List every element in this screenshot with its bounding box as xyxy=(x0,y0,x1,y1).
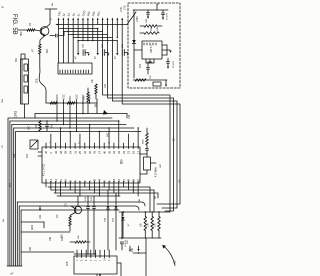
label 272 xyxy=(139,63,142,68)
svg-text:13B: 13B xyxy=(157,27,159,31)
wire drop cl3 xyxy=(117,25,118,39)
wire long bus 3 xyxy=(21,209,119,211)
resistor R14 xyxy=(66,202,72,231)
label 34C c xyxy=(61,236,64,241)
capacitor C4 47 xyxy=(114,40,129,59)
svg-text:36C: 36C xyxy=(16,57,18,62)
svg-text:43: 43 xyxy=(54,150,58,154)
capacitor C9 xyxy=(167,58,170,69)
IC1 top pins xyxy=(46,120,139,147)
ground tap xyxy=(39,206,41,211)
resistor R15 xyxy=(70,235,90,244)
svg-text:34: 34 xyxy=(112,150,116,154)
wire u2 pins xyxy=(162,45,170,55)
label pin marks xyxy=(50,141,111,144)
svg-text:10: 10 xyxy=(64,178,68,182)
svg-text:22C: 22C xyxy=(75,94,79,99)
label 200 xyxy=(30,224,34,230)
wire drop cl1 xyxy=(77,40,78,42)
label 24C b xyxy=(26,153,29,158)
label 36C d xyxy=(62,233,64,238)
svg-text:25B: 25B xyxy=(102,44,104,48)
wire cap stub xyxy=(50,35,55,37)
svg-text:25: 25 xyxy=(78,150,82,154)
svg-text:13: 13 xyxy=(49,178,53,182)
label 8B xyxy=(95,104,98,107)
svg-text:FIG. 5B: FIG. 5B xyxy=(11,14,17,35)
arrow into IC xyxy=(35,110,108,118)
svg-text:NC: NC xyxy=(56,214,59,218)
svg-text:40: 40 xyxy=(102,150,106,154)
svg-text:B: B xyxy=(1,6,5,8)
IC1 left pins xyxy=(38,152,42,156)
wire connector stub xyxy=(24,104,26,118)
label 34C e xyxy=(132,247,134,252)
wire ps top xyxy=(133,3,168,10)
svg-text:5B: 5B xyxy=(154,196,157,199)
svg-text:36C: 36C xyxy=(127,240,129,244)
ground br xyxy=(133,246,146,254)
svg-text:36C: 36C xyxy=(28,125,31,130)
resistor R12 10k xyxy=(148,212,154,231)
svg-text:12: 12 xyxy=(54,178,58,182)
label 5B right xyxy=(154,179,181,199)
wire bundle corners xyxy=(10,121,16,266)
svg-text:42: 42 xyxy=(44,178,48,182)
transistor Q2 xyxy=(70,196,82,216)
diode D3 53A xyxy=(104,190,110,250)
svg-text:K2: K2 xyxy=(173,260,177,264)
svg-text:1B: 1B xyxy=(29,23,32,26)
capacitor C7 xyxy=(162,10,169,20)
wire cross 2 xyxy=(21,231,70,233)
svg-text:45: 45 xyxy=(93,178,97,182)
resistor R13 10k xyxy=(155,212,161,231)
label 142 xyxy=(14,111,18,118)
wire H bus xyxy=(46,102,97,104)
svg-text:5,: 5, xyxy=(10,272,14,275)
label margin b xyxy=(2,144,4,148)
svg-text:10P: 10P xyxy=(160,164,162,168)
bus drop wires xyxy=(63,25,94,42)
label 34C a xyxy=(107,132,110,137)
component X2 xyxy=(153,82,161,86)
wire collector xyxy=(47,9,53,27)
diode D4 51A xyxy=(112,193,118,250)
svg-text:29: 29 xyxy=(64,150,68,154)
svg-text:28: 28 xyxy=(59,150,63,154)
svg-text:25B: 25B xyxy=(83,44,85,48)
svg-text:10B: 10B xyxy=(139,199,141,203)
label margin a xyxy=(2,98,4,103)
svg-text:12B 8.1: 12B 8.1 xyxy=(151,44,153,53)
svg-text:38: 38 xyxy=(132,178,136,182)
wire drop cl2 xyxy=(97,28,98,40)
wire loop xyxy=(39,68,46,103)
IC2 pin numbers xyxy=(77,258,111,261)
wire bot bus 2 xyxy=(51,189,154,191)
svg-text:4.00 MHz: 4.00 MHz xyxy=(156,166,158,177)
wire bot bus 3 xyxy=(54,193,158,198)
IC1 left pin labels xyxy=(43,163,46,176)
svg-text:12B: 12B xyxy=(128,114,131,119)
capacitor C2 47 xyxy=(75,40,90,59)
wire long bus 2 xyxy=(19,206,139,210)
svg-text:44: 44 xyxy=(98,178,102,182)
svg-text:17B: 17B xyxy=(91,197,93,201)
svg-text:15B: 15B xyxy=(151,27,153,31)
figure label FIG. 5B xyxy=(1,6,18,35)
capacitor C8 xyxy=(147,62,153,74)
IC2 bottom pin xyxy=(97,274,101,276)
label 14BC xyxy=(136,16,139,22)
svg-text:26C: 26C xyxy=(47,48,49,53)
bundle ends xyxy=(7,266,22,275)
svg-text:21C: 21C xyxy=(62,94,66,99)
svg-text:10 10V: 10 10V xyxy=(167,13,169,20)
wire cross 1 xyxy=(21,222,44,228)
svg-text:10B: 10B xyxy=(13,153,16,158)
svg-text:36C: 36C xyxy=(20,31,23,36)
capacitor C3 47 xyxy=(94,40,109,59)
capacitor C11 xyxy=(84,196,90,254)
resistor R5 xyxy=(84,88,90,114)
svg-text:ND: ND xyxy=(52,2,54,6)
svg-text:17A: 17A xyxy=(84,197,87,201)
resistor R7 xyxy=(140,19,162,28)
label 198 xyxy=(49,236,52,241)
svg-text:202: 202 xyxy=(29,246,32,251)
svg-text:11: 11 xyxy=(59,179,63,182)
labels 20C-24C xyxy=(55,94,92,99)
resistor R1 10k xyxy=(27,29,35,32)
IC2 name xyxy=(66,261,69,266)
diode D2 xyxy=(122,212,131,238)
connector row arrows xyxy=(56,18,127,26)
svg-text:36: 36 xyxy=(44,150,48,154)
capacitor C12 xyxy=(91,196,96,254)
svg-text:16: 16 xyxy=(117,178,121,182)
ground bc xyxy=(127,240,131,252)
label 174 xyxy=(9,182,12,187)
resistor R9 xyxy=(135,75,152,82)
svg-text:5C: 5C xyxy=(68,96,72,99)
resistor R11 10k xyxy=(141,212,147,231)
svg-text:14BC: 14BC xyxy=(136,16,139,22)
IC2 top pins xyxy=(77,250,109,258)
wire cross 3 xyxy=(21,251,74,253)
svg-text:272: 272 xyxy=(139,63,142,68)
svg-text:21: 21 xyxy=(127,150,131,154)
svg-text:12B: 12B xyxy=(146,19,148,23)
svg-text:20B: 20B xyxy=(36,78,39,83)
wire mid bus group xyxy=(10,121,141,132)
wire emitter xyxy=(40,35,45,44)
label 36C mid xyxy=(28,125,31,130)
svg-text:270: 270 xyxy=(123,5,127,10)
label 146 xyxy=(39,214,42,219)
label 134 xyxy=(104,83,107,88)
wire cap to bus xyxy=(59,32,64,36)
capacitor C1 xyxy=(56,34,58,37)
wire diagonal to 27D xyxy=(127,12,136,25)
wire ps left xyxy=(133,10,135,78)
regulator U2 xyxy=(142,41,162,63)
svg-text:MES: MES xyxy=(143,139,145,144)
svg-text:10B: 10B xyxy=(66,261,69,266)
svg-text:146: 146 xyxy=(39,214,42,219)
connector CN1 xyxy=(21,54,29,104)
svg-text:37: 37 xyxy=(136,178,140,182)
svg-text:17: 17 xyxy=(136,150,140,154)
wire down xyxy=(39,54,41,68)
wire long bus 1 xyxy=(17,202,145,206)
label 202 xyxy=(29,246,32,251)
label 20B xyxy=(36,78,39,83)
svg-text:24: 24 xyxy=(68,150,72,154)
capacitor C6 xyxy=(147,10,150,19)
wire bot bus 1 xyxy=(48,186,150,188)
wire rail A xyxy=(103,25,170,213)
svg-text:134: 134 xyxy=(104,83,107,88)
wire base xyxy=(18,29,27,31)
wire res bottom xyxy=(119,231,161,239)
wire top stub xyxy=(45,2,57,9)
svg-text:15: 15 xyxy=(122,178,126,182)
resistor R6 xyxy=(92,78,97,99)
wire rail B xyxy=(108,25,174,212)
dashed enclosure xyxy=(128,3,180,88)
ground ps1 xyxy=(169,51,171,53)
svg-text:36C: 36C xyxy=(62,233,64,238)
label 10B r xyxy=(139,199,141,203)
IC1 pin ticks xyxy=(46,147,138,183)
label 36C xyxy=(20,31,23,36)
IC1 top pin numbers xyxy=(44,150,140,154)
svg-text:51A: 51A xyxy=(112,218,115,222)
IC1 name 80 xyxy=(119,159,124,164)
wire rail D xyxy=(122,25,180,205)
svg-text:174: 174 xyxy=(9,182,12,187)
svg-text:32: 32 xyxy=(83,150,87,154)
svg-text:35: 35 xyxy=(107,150,111,154)
resistor R10 MES xyxy=(143,128,149,145)
label 12B xyxy=(128,114,131,119)
svg-text:31: 31 xyxy=(73,150,77,154)
ground ps2 xyxy=(165,80,167,87)
wire to bottom edge xyxy=(145,238,147,276)
label 270 xyxy=(123,5,127,10)
svg-text:53A: 53A xyxy=(104,218,107,222)
svg-text:27: 27 xyxy=(98,150,102,154)
IC1 bottom pin numbers xyxy=(44,178,140,182)
wire col drops xyxy=(56,103,83,132)
resistor R8 xyxy=(140,27,159,35)
wire mid bus 1 xyxy=(35,114,127,119)
label NC xyxy=(56,214,59,218)
svg-text:(200: (200 xyxy=(30,224,34,230)
svg-text:50C: 50C xyxy=(52,123,54,128)
pin labels row xyxy=(57,10,101,17)
capacitor C13 10 16V xyxy=(120,212,128,250)
IC1 bottom pins xyxy=(46,183,138,196)
resistor R4 xyxy=(36,121,41,132)
wire bundle lower xyxy=(17,202,21,266)
wire res top rail xyxy=(119,211,170,212)
wire bc bus xyxy=(74,253,96,254)
label K2 xyxy=(173,260,177,264)
wire res drops xyxy=(150,187,154,212)
svg-text:(142: (142 xyxy=(14,111,18,118)
wire right drop xyxy=(96,99,98,114)
diode D1 xyxy=(132,40,136,44)
block keypad xyxy=(58,63,92,74)
svg-text:80: 80 xyxy=(119,159,124,164)
svg-text:27D: 27D xyxy=(119,7,123,12)
svg-text:40: 40 xyxy=(127,178,131,182)
label 15 10V xyxy=(173,61,175,68)
svg-text:25B: 25B xyxy=(122,44,124,48)
label margin c xyxy=(2,219,5,222)
wire taps xyxy=(56,100,90,104)
label 36C conn xyxy=(16,57,18,62)
label 10B c xyxy=(13,153,16,158)
box pot xyxy=(30,140,38,149)
wire bot bus 4 xyxy=(57,195,120,197)
wire u2 left xyxy=(134,49,142,51)
microcontroller IC1 xyxy=(42,147,140,183)
svg-text:198: 198 xyxy=(49,236,52,241)
svg-text:24C: 24C xyxy=(26,153,29,158)
resistor R2 47 xyxy=(32,44,50,54)
svg-text:15 10V: 15 10V xyxy=(173,61,175,68)
wire ps bottom xyxy=(133,79,167,81)
wire box feeds xyxy=(59,25,74,64)
wire rail C xyxy=(112,25,177,209)
svg-text:19: 19 xyxy=(132,150,136,154)
svg-text:33: 33 xyxy=(117,150,121,154)
capacitor C5 xyxy=(46,121,54,132)
crystal X1 4.00MHz xyxy=(140,154,162,177)
IC2 right pin xyxy=(117,263,121,276)
svg-text:18: 18 xyxy=(112,178,116,182)
svg-text:41: 41 xyxy=(93,150,97,154)
svg-text:4 2 1 14 22: 4 2 1 14 22 xyxy=(43,163,46,176)
capacitor C10 xyxy=(140,145,149,154)
svg-text:34C: 34C xyxy=(132,247,134,252)
arrow K2 xyxy=(162,245,175,266)
label 27D xyxy=(119,7,123,12)
label 1B xyxy=(29,23,32,26)
label 10 right xyxy=(173,138,176,141)
bus lines xyxy=(59,29,118,41)
svg-text:23: 23 xyxy=(122,150,126,154)
svg-text:26: 26 xyxy=(88,150,92,154)
driver IC2 xyxy=(74,256,117,274)
resistor R3 xyxy=(50,102,75,105)
svg-text:20C: 20C xyxy=(55,94,59,99)
pcb outline top xyxy=(8,118,112,266)
transistor Q1 xyxy=(35,27,49,37)
